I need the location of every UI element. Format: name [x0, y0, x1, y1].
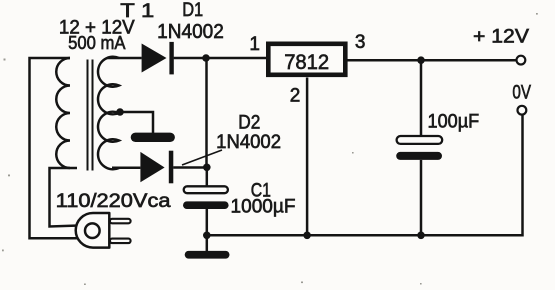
svg-text:D1: D1	[182, 0, 203, 21]
wire secondary bottom to D2	[112, 167, 140, 170]
diode D2	[140, 151, 173, 184]
node center tap	[116, 108, 124, 116]
node D (pin 2 junction)	[303, 232, 311, 240]
wire	[30, 58, 80, 238]
regulator U1 7812	[268, 44, 345, 75]
wire node B to C1	[206, 167, 209, 186]
wire 7812 pin 3 to +12V	[346, 59, 516, 62]
svg-text:+ 12V: + 12V	[473, 27, 529, 48]
ground (center tap bar)	[131, 133, 175, 142]
wire 100uF branch top	[420, 60, 423, 136]
wire node A down to node B	[205, 58, 208, 168]
transformer T1 primary winding	[56, 58, 70, 168]
wire D2 cathode to node B	[173, 166, 207, 169]
ground (bottom bar)	[185, 251, 230, 259]
wire secondary top to D1	[107, 57, 142, 60]
leader line to D2	[182, 150, 222, 165]
wire 100uF to rail	[420, 160, 423, 235]
svg-text:110/220Vca: 110/220Vca	[56, 191, 171, 212]
svg-text:D2: D2	[238, 113, 260, 134]
capacitor 100uF	[396, 136, 442, 160]
node C (rail left junction)	[203, 232, 211, 240]
node F (100uF top junction)	[417, 56, 425, 64]
bottom rail wire	[207, 115, 523, 235]
svg-text:2: 2	[290, 86, 301, 107]
wire D1 cathode to node A	[174, 57, 207, 60]
svg-text:1000µF: 1000µF	[231, 197, 296, 218]
svg-text:3: 3	[355, 32, 366, 53]
terminal 0V	[518, 106, 527, 115]
wire node A to 7812 pin 1	[206, 57, 268, 60]
wire 7812 pin 2 to rail	[306, 78, 309, 236]
transformer T1 core	[88, 60, 93, 171]
wire C1 to bottom rail	[206, 209, 209, 235]
terminal +12V	[517, 56, 526, 65]
node E (100uF junction)	[417, 232, 425, 240]
node A (D1 output junction)	[202, 54, 210, 62]
svg-text:0V: 0V	[512, 82, 531, 103]
svg-text:7812: 7812	[284, 51, 329, 74]
transformer T1 secondary winding	[98, 57, 119, 170]
wire center tap	[120, 112, 153, 133]
diode D1	[142, 42, 174, 75]
svg-text:1N4002: 1N4002	[157, 21, 224, 43]
svg-text:1N4002: 1N4002	[216, 132, 281, 153]
wire primary bottom to plug	[50, 168, 80, 227]
node B (D2 output junction)	[203, 164, 211, 172]
capacitor C1	[183, 186, 229, 209]
AC plug	[76, 213, 131, 248]
svg-text:1: 1	[249, 34, 260, 55]
svg-text:100µF: 100µF	[428, 111, 480, 132]
svg-text:500 mA: 500 mA	[68, 32, 126, 53]
wire ground stub	[206, 235, 209, 251]
